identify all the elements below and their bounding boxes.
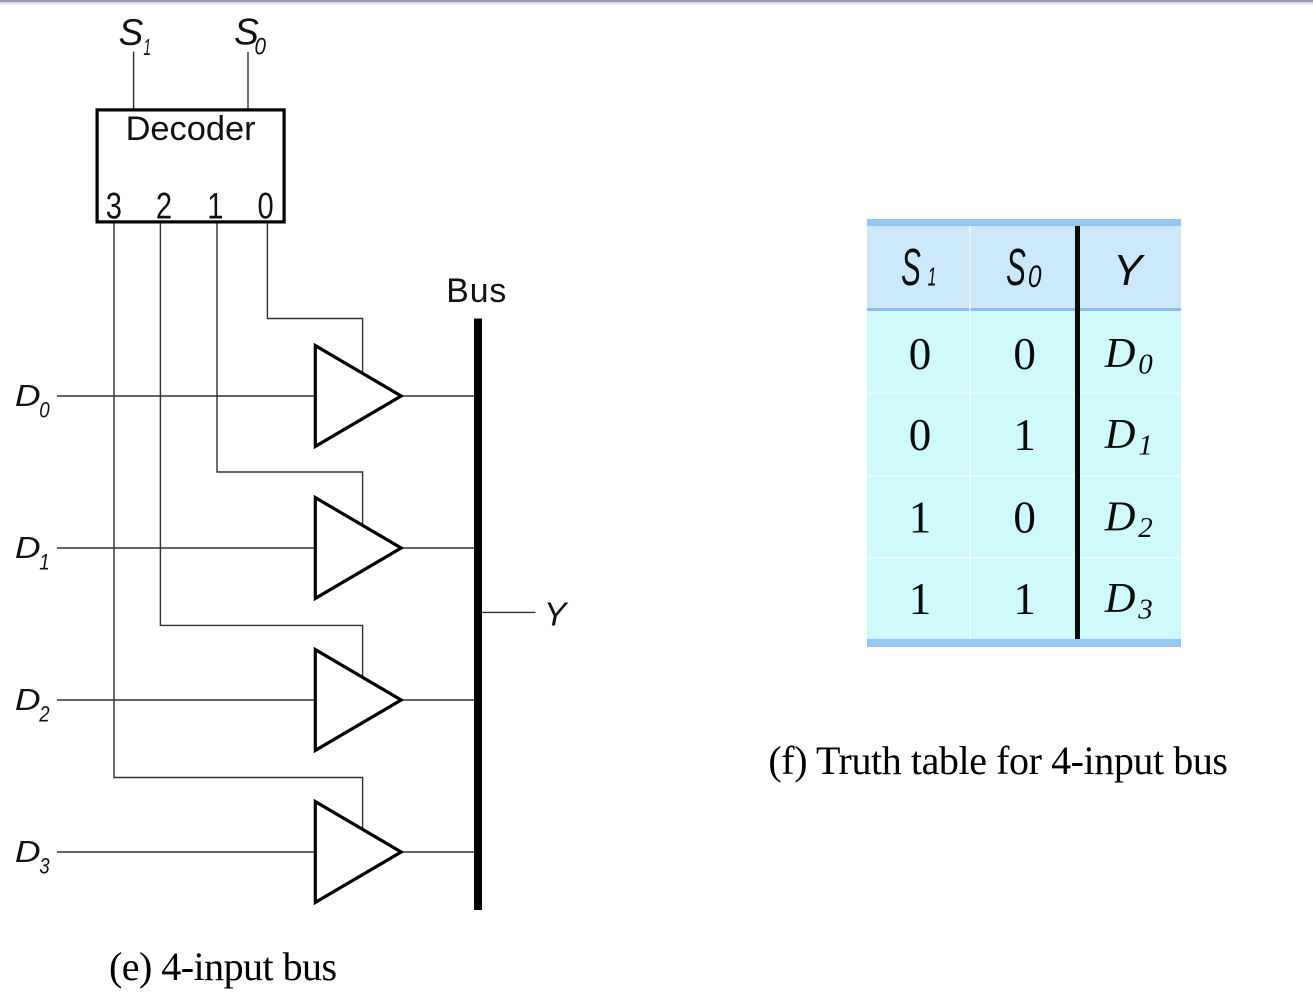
wire decoder pin 2 to buffer U3 enable <box>160 223 362 679</box>
svg-text:0: 0 <box>255 33 267 60</box>
wire decoder pin 1 to buffer U2 enable <box>217 223 363 527</box>
svg-text:D: D <box>15 683 41 717</box>
svg-text:0: 0 <box>258 186 274 227</box>
svg-text:3: 3 <box>39 855 50 879</box>
svg-text:3: 3 <box>1137 594 1153 626</box>
table divider thick line <box>1075 226 1080 639</box>
label D1 <box>15 531 41 565</box>
wire U3 output to bus <box>401 699 475 701</box>
svg-text:0: 0 <box>1013 329 1036 379</box>
tri-state buffer U2 <box>315 498 401 599</box>
svg-text:1: 1 <box>143 36 151 61</box>
svg-text:Y: Y <box>1113 247 1145 295</box>
wire S1 to decoder <box>133 52 135 110</box>
svg-text:D: D <box>15 531 41 565</box>
svg-text:D: D <box>1104 493 1136 540</box>
svg-text:Y: Y <box>544 595 569 633</box>
truth table background <box>867 219 1181 646</box>
pin number 0 <box>258 186 274 227</box>
table value column Y: D0 <box>1104 330 1154 626</box>
table body background <box>867 311 1181 640</box>
svg-text:(f) Truth table for 4-input bu: (f) Truth table for 4-input bus <box>768 738 1227 783</box>
wire D0 input <box>57 395 316 397</box>
svg-text:1: 1 <box>1013 410 1036 460</box>
faint row separators <box>867 392 1181 394</box>
tri-state buffer U4 <box>315 802 401 903</box>
wire U1 output to bus <box>401 395 475 397</box>
svg-text:D: D <box>15 379 41 413</box>
wire decoder pin 3 to buffer U4 enable <box>114 223 363 831</box>
svg-text:S: S <box>1006 238 1026 296</box>
svg-text:0: 0 <box>1138 349 1153 381</box>
table header separator <box>867 308 1181 311</box>
svg-text:3: 3 <box>106 186 122 227</box>
svg-text:0: 0 <box>1028 259 1042 295</box>
wire D1 input <box>57 547 316 549</box>
table top bar <box>867 219 1181 226</box>
label D0 <box>15 379 41 413</box>
svg-text:0: 0 <box>39 399 50 423</box>
wire decoder pin 0 to buffer U1 enable <box>267 223 362 375</box>
svg-text:1: 1 <box>909 492 932 542</box>
wire S0 to decoder <box>247 52 249 109</box>
svg-text:2: 2 <box>38 703 50 727</box>
decoder U5 box <box>97 110 284 222</box>
table bottom bar <box>867 639 1181 647</box>
svg-text:D: D <box>15 835 41 869</box>
svg-text:1: 1 <box>909 574 932 624</box>
table value column S1 <box>909 329 1036 624</box>
svg-text:2: 2 <box>1138 512 1153 544</box>
table header row background <box>867 226 1181 308</box>
label D3 <box>15 835 41 869</box>
wire D2 input <box>57 699 316 701</box>
faint column separator <box>969 226 971 639</box>
wire U4 output to bus <box>401 851 475 853</box>
svg-text:1: 1 <box>1013 574 1036 624</box>
svg-text:0: 0 <box>909 410 932 460</box>
svg-text:1: 1 <box>928 263 937 292</box>
table header S1 <box>901 238 921 296</box>
svg-text:Bus: Bus <box>446 272 507 310</box>
svg-text:2: 2 <box>156 186 172 227</box>
svg-text:D: D <box>1104 330 1136 377</box>
wire Y output stub <box>482 611 536 613</box>
table header S0 <box>1006 238 1026 296</box>
svg-text:D: D <box>1104 411 1136 458</box>
svg-text:0: 0 <box>909 329 932 379</box>
pin number 1 <box>207 186 223 227</box>
wire D3 input <box>57 851 316 853</box>
svg-text:1: 1 <box>39 551 49 575</box>
tri-state buffer U1 <box>315 346 401 447</box>
svg-text:0: 0 <box>1013 492 1036 542</box>
svg-text:S: S <box>119 12 144 53</box>
svg-text:S: S <box>901 238 921 296</box>
wire U2 output to bus <box>401 547 475 549</box>
svg-text:1: 1 <box>207 186 223 227</box>
pin number 3 <box>106 186 122 227</box>
label D2 <box>15 683 41 717</box>
svg-text:(e) 4-input bus: (e) 4-input bus <box>109 944 337 989</box>
svg-text:Decoder: Decoder <box>126 110 256 148</box>
svg-text:1: 1 <box>1138 430 1153 462</box>
bus bar <box>474 319 482 911</box>
pin number 2 <box>156 186 172 227</box>
svg-text:D: D <box>1104 575 1136 622</box>
tri-state buffer U3 <box>315 650 401 751</box>
